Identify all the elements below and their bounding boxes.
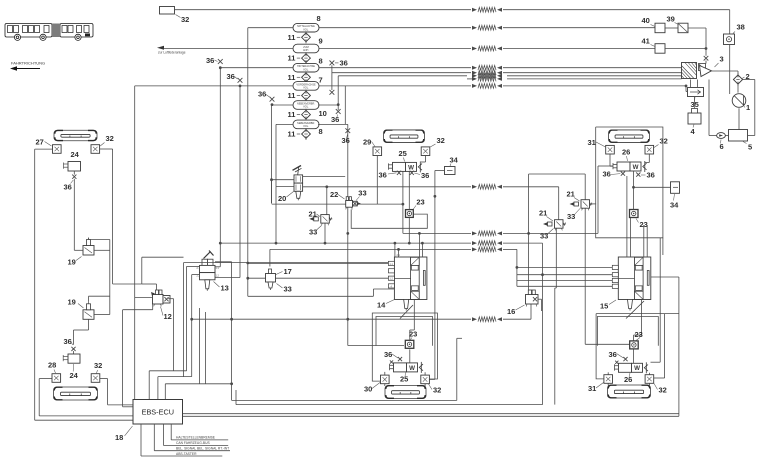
svg-text:21: 21	[539, 209, 547, 218]
svg-text:16: 16	[507, 307, 515, 316]
svg-text:39: 39	[667, 15, 675, 24]
svg-text:ANH.: ANH.	[303, 49, 309, 52]
svg-text:33: 33	[567, 212, 575, 221]
svg-text:BEL. SIGNAL BEL. SIGNAL RT.-: BEL. SIGNAL BEL. SIGNAL RT.-INT	[176, 447, 229, 451]
svg-text:8: 8	[319, 127, 323, 136]
svg-text:36: 36	[342, 136, 350, 145]
svg-text:32: 32	[106, 134, 114, 143]
svg-text:HALTESTELLENBREMSE: HALTESTELLENBREMSE	[176, 436, 216, 440]
svg-text:3: 3	[720, 55, 724, 64]
svg-text:2.1: 2.1	[397, 254, 401, 257]
svg-text:15: 15	[600, 302, 608, 311]
svg-text:32: 32	[660, 137, 668, 146]
svg-text:11: 11	[288, 73, 296, 82]
svg-text:32: 32	[94, 361, 102, 370]
svg-text:20: 20	[278, 194, 286, 203]
svg-text:25: 25	[400, 375, 408, 384]
svg-text:11: 11	[288, 130, 296, 139]
svg-text:33: 33	[309, 228, 317, 237]
svg-text:36: 36	[258, 90, 266, 99]
svg-text:8: 8	[317, 14, 321, 23]
svg-text:W: W	[633, 164, 639, 171]
svg-text:10: 10	[319, 109, 327, 118]
svg-text:31: 31	[588, 384, 596, 393]
svg-text:11: 11	[288, 91, 296, 100]
svg-text:25: 25	[399, 149, 407, 158]
svg-text:VOL.: VOL.	[303, 106, 309, 109]
svg-text:19: 19	[68, 298, 76, 307]
svg-text:40: 40	[642, 16, 650, 25]
svg-text:21: 21	[309, 210, 317, 219]
svg-text:FAHRTRICHTUNG: FAHRTRICHTUNG	[11, 61, 45, 66]
svg-text:18: 18	[115, 433, 123, 442]
svg-text:36: 36	[340, 59, 348, 68]
svg-text:27: 27	[36, 138, 44, 147]
svg-text:30: 30	[364, 385, 372, 394]
svg-text:11: 11	[288, 54, 296, 63]
svg-text:34: 34	[670, 201, 679, 210]
svg-text:8: 8	[319, 57, 323, 66]
svg-text:W: W	[634, 365, 640, 372]
svg-text:CAN FAHRZEUG-BUS: CAN FAHRZEUG-BUS	[176, 441, 211, 445]
svg-text:22: 22	[330, 190, 338, 199]
svg-text:24: 24	[71, 150, 80, 159]
svg-text:EBS-ECU: EBS-ECU	[142, 408, 174, 417]
svg-text:VOL.: VOL.	[303, 87, 309, 90]
svg-text:11: 11	[288, 110, 296, 119]
svg-text:19: 19	[68, 258, 76, 267]
svg-text:VOL.: VOL.	[303, 68, 309, 71]
svg-text:5: 5	[748, 143, 752, 152]
svg-text:7: 7	[319, 76, 323, 85]
svg-text:32: 32	[437, 136, 445, 145]
svg-text:41: 41	[642, 37, 650, 46]
svg-text:33: 33	[358, 189, 366, 198]
svg-text:38: 38	[737, 23, 745, 32]
svg-text:34: 34	[450, 155, 459, 164]
svg-text:23: 23	[409, 330, 417, 339]
svg-text:33: 33	[540, 232, 548, 241]
svg-text:1: 1	[746, 103, 750, 112]
svg-text:13: 13	[221, 284, 229, 293]
svg-text:26: 26	[622, 148, 630, 157]
svg-text:VOL.: VOL.	[303, 125, 309, 128]
svg-text:W: W	[408, 164, 414, 171]
svg-text:VOL.: VOL.	[303, 28, 309, 31]
svg-text:23: 23	[640, 220, 648, 229]
svg-text:31: 31	[588, 138, 596, 147]
svg-text:1.1: 1.1	[216, 267, 220, 270]
svg-text:24: 24	[70, 371, 79, 380]
svg-text:ABS-TASTER: ABS-TASTER	[176, 452, 197, 456]
svg-text:6: 6	[720, 142, 724, 151]
svg-text:33: 33	[284, 285, 292, 294]
svg-text:36: 36	[421, 171, 429, 180]
svg-text:23: 23	[416, 198, 424, 207]
svg-text:36: 36	[647, 171, 655, 180]
svg-text:23: 23	[635, 330, 643, 339]
svg-text:36: 36	[609, 350, 617, 359]
svg-text:36: 36	[227, 72, 235, 81]
svg-text:21: 21	[567, 190, 575, 199]
svg-text:zur Luftfederanlage: zur Luftfederanlage	[158, 51, 186, 55]
svg-text:36: 36	[64, 183, 72, 192]
svg-text:36: 36	[603, 170, 611, 179]
svg-text:1.2: 1.2	[216, 274, 220, 277]
svg-text:32: 32	[659, 386, 667, 395]
svg-text:29: 29	[363, 138, 371, 147]
svg-text:36: 36	[331, 115, 339, 124]
svg-text:4: 4	[691, 127, 696, 136]
svg-text:36: 36	[206, 56, 214, 65]
svg-text:36: 36	[379, 171, 387, 180]
svg-text:32: 32	[433, 386, 441, 395]
svg-text:9: 9	[319, 37, 323, 46]
svg-text:12: 12	[164, 312, 172, 321]
svg-text:36: 36	[384, 350, 392, 359]
svg-text:26: 26	[624, 375, 632, 384]
svg-text:14: 14	[377, 301, 386, 310]
svg-text:32: 32	[181, 15, 189, 24]
svg-text:W: W	[409, 365, 415, 372]
svg-text:28: 28	[48, 361, 56, 370]
svg-text:11: 11	[288, 33, 296, 42]
svg-text:17: 17	[284, 267, 292, 276]
